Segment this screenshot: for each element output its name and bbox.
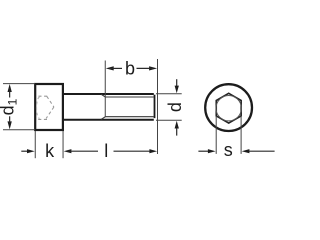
dimension k right / l left extension line bbox=[62, 131, 64, 158]
dimension b left extension line (thread start) bbox=[104, 61, 106, 117]
end view hex socket hexagon bbox=[216, 93, 241, 123]
svg-text:l: l bbox=[104, 141, 108, 161]
dimension d1 bottom extension line bbox=[3, 129, 35, 131]
dimension d1 line upper segment with up arrow bbox=[8, 84, 12, 92]
svg-text:s: s bbox=[224, 140, 233, 160]
svg-text:b: b bbox=[125, 59, 135, 79]
dimension d top extension line bbox=[156, 93, 182, 95]
dimension s right extension line bbox=[240, 116, 242, 154]
end view socket chamfer circle bbox=[216, 96, 241, 121]
thread minor diameter bottom line bbox=[105, 116, 153, 118]
hex socket hidden line: bottom horizontal dash bbox=[38, 118, 47, 120]
dimension l line with right arrow bbox=[114, 150, 154, 152]
svg-text:d: d bbox=[165, 102, 185, 112]
hex socket hidden line: chevron upper arm bbox=[47, 96, 54, 107]
thread minor diameter top line bbox=[105, 96, 153, 98]
hex socket hidden line: top horizontal dash bbox=[38, 95, 48, 97]
shank bottom outline bbox=[64, 119, 154, 121]
dimension s left extension line bbox=[215, 116, 217, 154]
dimension d top outside arrow with tail bbox=[176, 79, 178, 86]
screw head side view (cylinder head rectangle) bbox=[35, 84, 63, 130]
hex socket hidden line: chevron lower arm bbox=[46, 107, 54, 119]
dimension b line right segment with right arrow bbox=[149, 66, 157, 70]
dimension d1 top extension line bbox=[3, 83, 35, 85]
svg-text:k: k bbox=[45, 141, 55, 161]
dimension b line left segment with left arrow bbox=[106, 66, 114, 70]
thread runout bottom diagonal bbox=[101, 117, 105, 120]
dimension d1 line lower segment with down arrow bbox=[8, 121, 12, 129]
hex socket hidden line: left arc bbox=[37, 97, 40, 118]
chamfered end face of screw bbox=[154, 95, 156, 118]
end view outer circle (head outline) bbox=[205, 84, 252, 131]
dimension b right extension line (screw end) bbox=[157, 59, 159, 154]
dimension d bottom outside arrow with tail bbox=[175, 121, 179, 129]
dimension k left extension line bbox=[34, 131, 36, 158]
dimension k outside arrow left with tail bbox=[21, 150, 27, 152]
dimension l line with left arrow bbox=[64, 149, 72, 153]
thread runout top diagonal bbox=[101, 94, 105, 97]
dimension s outside arrow left with tail bbox=[198, 150, 208, 152]
dimension d bottom extension line bbox=[156, 119, 182, 121]
shank top outline bbox=[64, 93, 154, 95]
dimension s outside arrow right with tail bbox=[242, 149, 250, 153]
